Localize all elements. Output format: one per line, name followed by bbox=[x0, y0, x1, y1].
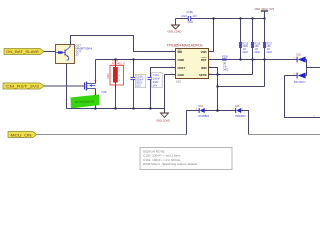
svg-text:0402: 0402 bbox=[267, 51, 273, 54]
wire D14 anode to junction bbox=[205, 110, 236, 112]
capacitor C190 bbox=[131, 60, 146, 109]
transistor Q17 (pre-biased NPN in box) bbox=[56, 45, 75, 64]
wire Q18 source down to rail bbox=[95, 89, 97, 109]
svg-text:WDI: WDI bbox=[201, 66, 207, 70]
capacitor C191 bbox=[148, 72, 163, 108]
wire diode pair common anode bbox=[307, 60, 320, 76]
wire lower diode cathode to right edge bbox=[285, 76, 320, 118]
svg-text:x: x bbox=[119, 75, 120, 77]
label Q17 MMBT3904 bbox=[76, 44, 93, 57]
svg-text:0402: 0402 bbox=[153, 81, 159, 84]
wire CRST line U12 bbox=[151, 68, 176, 78]
design note box bbox=[140, 148, 232, 170]
resistor R239 (red DNI 100K) bbox=[107, 59, 125, 85]
svg-text:0402: 0402 bbox=[243, 51, 249, 54]
junction dots CWD line bbox=[114, 58, 134, 60]
wire ground rail bbox=[67, 108, 165, 110]
svg-text:NTR4003NT1G: NTR4003NT1G bbox=[75, 99, 95, 104]
resistor R215 bbox=[239, 19, 249, 60]
svg-text:SETB: SETB bbox=[199, 73, 206, 77]
svg-text:VDD: VDD bbox=[201, 50, 207, 54]
svg-text:0402: 0402 bbox=[255, 51, 261, 54]
svg-text:10nF: 10nF bbox=[188, 21, 194, 24]
svg-text:14V2: 14V2 bbox=[181, 15, 187, 18]
svg-text:GND_LOAD: GND_LOAD bbox=[168, 31, 182, 34]
IC U12 TPS3854 bbox=[167, 43, 212, 83]
svg-text:100K: 100K bbox=[107, 73, 110, 79]
resistor R216 bbox=[251, 19, 261, 75]
power VDD_MCU_3V3 bbox=[255, 7, 275, 20]
diode D10 pair lower (BAV74W) bbox=[294, 73, 307, 85]
svg-text:100nF: 100nF bbox=[153, 77, 161, 80]
wire RST line bbox=[209, 59, 298, 61]
svg-text:DSM4B05: DSM4B05 bbox=[199, 116, 210, 118]
resistor R217 bbox=[263, 19, 273, 87]
junction dots RST line bbox=[239, 58, 265, 60]
wire Q17 collector loop to U12 pin WD bbox=[71, 36, 176, 52]
junction dot WDI/diodes bbox=[216, 109, 219, 112]
svg-text:16V: 16V bbox=[136, 85, 141, 88]
resistor R238 (0R inline) bbox=[222, 56, 229, 72]
svg-text:RC0402_X: RC0402_X bbox=[112, 62, 125, 66]
diode D14 bbox=[196, 105, 210, 118]
junction dots rail bbox=[94, 107, 151, 109]
svg-text:RST: RST bbox=[201, 58, 207, 62]
svg-text:Q18: Q18 bbox=[102, 90, 107, 94]
svg-text:D15: D15 bbox=[235, 105, 240, 108]
junction dots top bus bbox=[212, 17, 253, 19]
svg-text:DSM4B05: DSM4B05 bbox=[235, 116, 246, 118]
svg-text:12V: 12V bbox=[193, 15, 198, 18]
svg-text:C191: C191 bbox=[153, 74, 160, 77]
wire GND pin U12 down bbox=[165, 75, 176, 109]
junction dots WDI vertical bbox=[216, 73, 218, 87]
wire Q18 drain up to CWD line bbox=[95, 60, 97, 84]
svg-text:23: 23 bbox=[76, 53, 80, 57]
svg-text:D14: D14 bbox=[199, 105, 204, 108]
wire R239 vertical bbox=[115, 60, 117, 68]
svg-text:MCU_ON: MCU_ON bbox=[11, 133, 33, 137]
svg-text:BAV74W-7: BAV74W-7 bbox=[294, 81, 306, 84]
port MCU_ON bbox=[8, 132, 37, 138]
svg-text:U12: U12 bbox=[176, 80, 182, 84]
wire port1 to Q17 base bbox=[44, 51, 56, 53]
svg-text:VDD_MCU_3V3: VDD_MCU_3V3 bbox=[255, 7, 275, 11]
wire MCU_ON run bbox=[37, 134, 187, 136]
wire Q17 emitter down bbox=[66, 64, 68, 109]
ground GND_LOAD (bottom) bbox=[156, 109, 170, 123]
svg-text:0402: 0402 bbox=[223, 69, 229, 72]
wire CWD line U12 to Q18 drain bbox=[96, 59, 176, 61]
port ON_BAT_SLAVE bbox=[4, 49, 44, 55]
wire top bus bbox=[176, 18, 188, 20]
svg-text:CRST: CRST bbox=[178, 66, 186, 70]
svg-text:R238: R238 bbox=[222, 56, 228, 59]
svg-text:C198: C198 bbox=[187, 11, 194, 14]
port CM_RST_3V3 bbox=[3, 83, 44, 89]
capacitor C198 (inline) bbox=[181, 11, 197, 24]
svg-text:D10: D10 bbox=[297, 53, 302, 56]
svg-text:16V: 16V bbox=[153, 85, 158, 88]
svg-text:ON_BAT_SLAVE: ON_BAT_SLAVE bbox=[6, 50, 40, 54]
wire WDI down to diode junction bbox=[209, 68, 218, 111]
svg-text:GND_LOAD: GND_LOAD bbox=[156, 120, 170, 123]
transistor Q18 (N-MOSFET) bbox=[85, 80, 97, 95]
wire R217 bottom branch bbox=[218, 86, 265, 88]
diode D10 bbox=[294, 53, 307, 62]
svg-text:CM_RST_3V3: CM_RST_3V3 bbox=[6, 85, 39, 89]
wire port2 to Q18 gate bbox=[44, 85, 85, 87]
svg-text:WD: WD bbox=[178, 50, 183, 54]
ground GND_LOAD (top) bbox=[168, 19, 182, 34]
green highlight NTR4003NT1G bbox=[71, 95, 100, 109]
svg-text:GND: GND bbox=[178, 73, 184, 77]
diode D15 bbox=[233, 105, 247, 118]
wire D15 anode to right edge bbox=[241, 111, 249, 135]
wire VDD pin up to top bus bbox=[209, 19, 214, 52]
svg-text:TPS3854-MA01ADFKG: TPS3854-MA01ADFKG bbox=[167, 43, 203, 47]
wire SETB line bbox=[209, 74, 253, 76]
svg-text:CWD: CWD bbox=[178, 58, 185, 62]
svg-text:R239 Mount : Watchdog feature: R239 Mount : Watchdog feature disable bbox=[143, 162, 198, 166]
